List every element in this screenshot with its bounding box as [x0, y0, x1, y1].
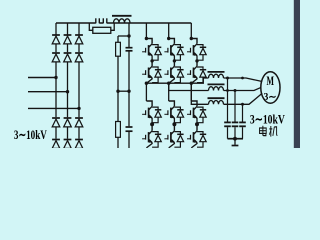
capacitor C2 (lower DC link) [128, 91, 130, 126]
wire [78, 44, 80, 52]
node leg 3 top [190, 37, 193, 40]
inductor L4 (output filter, iron core) [208, 97, 225, 99]
diode D11 [52, 35, 60, 44]
decorative right edge band [294, 0, 300, 148]
wire [55, 44, 57, 52]
wire capacitor common bar [228, 138, 244, 140]
wire to motor phase 1 [224, 78, 263, 82]
wire [145, 83, 147, 101]
wire [168, 83, 170, 101]
breaker contact K2 [102, 18, 104, 23]
motor M (3~) [261, 72, 280, 104]
node [226, 89, 229, 92]
diode D31 [75, 35, 83, 44]
wire output phase 2 [169, 83, 209, 90]
node leg 2 midpoint [167, 82, 170, 85]
wire [190, 83, 192, 101]
inductor L1 (DC choke, iron core) [112, 15, 132, 17]
diode D33 [75, 118, 83, 127]
wire inverter leg 1 feed [145, 23, 147, 39]
IGBT V14 with freewheel diode [142, 126, 161, 148]
resistor R1 (pre-charge) [93, 27, 111, 33]
node [172, 122, 176, 126]
capacitor C1 (upper DC link) [128, 36, 130, 47]
node [150, 122, 154, 126]
node DC+ [127, 34, 130, 37]
node [195, 59, 198, 62]
node leg 2 top [167, 37, 170, 40]
capacitor C4 (filter) [234, 91, 236, 122]
wire inverter leg 2 feed [168, 23, 170, 39]
node phase U [54, 76, 57, 79]
wire phase input U [28, 77, 56, 79]
wire [67, 127, 69, 139]
node DC midpoint [116, 90, 119, 93]
IGBT V31 with freewheel diode [187, 39, 206, 61]
wire output phase 3 [191, 83, 208, 104]
node [233, 137, 237, 141]
IGBT V22 with freewheel diode [164, 61, 183, 83]
diode D22 [64, 53, 72, 62]
wire [78, 127, 80, 139]
IGBT V32 with freewheel diode [187, 61, 206, 83]
diode D14 [52, 140, 60, 149]
wire phase input V [28, 91, 68, 93]
wire DC link drop [128, 23, 130, 36]
wire midpoint tie [118, 90, 129, 92]
wire [67, 62, 69, 117]
diode D24 [64, 140, 72, 149]
diode D13 [52, 118, 60, 127]
svg-text:3∼10kV: 3∼10kV [250, 111, 285, 126]
wire [117, 56, 119, 91]
wire rectifier column 3 [78, 23, 80, 35]
node [241, 77, 244, 80]
wire phase input W [28, 107, 79, 109]
wire to motor phase 2 [224, 87, 262, 90]
IGBT V24 with freewheel diode [164, 126, 183, 148]
resistor R3 (balancing, lower) [117, 91, 119, 121]
IGBT V23 with freewheel diode [164, 101, 183, 123]
ground [234, 139, 236, 145]
wire [151, 123, 153, 125]
wire output phase 1 [146, 78, 208, 83]
wire [67, 44, 69, 52]
wire rectifier column 1 [55, 23, 57, 35]
label motor (Chinese 电机, drawn strokes) [260, 126, 278, 137]
node leg 3 midpoint [190, 82, 193, 85]
IGBT V21 with freewheel diode [164, 39, 183, 61]
resistor R2 (balancing, upper) [116, 42, 121, 56]
wire [78, 62, 80, 117]
IGBT V13 with freewheel diode [142, 101, 161, 123]
wire [55, 62, 57, 117]
wire [118, 35, 129, 37]
wire bypass return [111, 23, 114, 30]
node [234, 89, 237, 92]
diode D21 [64, 35, 72, 44]
wire rectifier column 2 [67, 23, 69, 35]
wire pre-charge bypass [89, 23, 93, 30]
IGBT V12 with freewheel diode [142, 61, 161, 83]
node leg 1 top [145, 37, 148, 40]
node phase W [77, 107, 80, 110]
capacitor C3 (filter) [227, 78, 229, 122]
svg-text:3∼: 3∼ [264, 92, 277, 103]
node [173, 59, 176, 62]
inductor L3 (output filter, iron core) [208, 83, 225, 85]
node leg 1 midpoint [145, 82, 148, 85]
svg-text:3∼10kV: 3∼10kV [14, 127, 47, 142]
node [195, 122, 199, 126]
capacitor C5 (filter) [242, 104, 244, 121]
wire [55, 127, 57, 139]
IGBT V33 with freewheel diode [187, 101, 206, 123]
wire [196, 123, 198, 125]
wire to motor phase 3 [224, 93, 263, 104]
wire top DC+ bus [56, 22, 96, 24]
node [150, 59, 153, 62]
wire inverter leg 3 feed [190, 23, 192, 39]
diode D12 [52, 53, 60, 62]
diode D32 [75, 53, 83, 62]
inductor L2 (output filter, iron core) [208, 71, 225, 73]
node [226, 77, 229, 80]
svg-text:M: M [266, 74, 274, 88]
breaker contact K1 [95, 18, 97, 23]
node phase V [66, 90, 69, 93]
wire [173, 123, 175, 125]
node [241, 103, 244, 106]
IGBT V11 with freewheel diode [142, 39, 161, 61]
diode D23 [64, 118, 72, 127]
IGBT V34 with freewheel diode [187, 126, 206, 148]
diode D34 [75, 140, 83, 149]
